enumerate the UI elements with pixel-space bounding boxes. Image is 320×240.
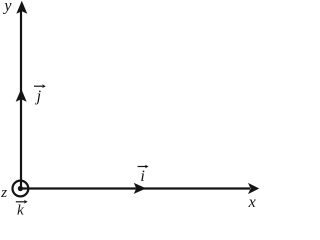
arrowhead y-axis tip <box>16 1 27 14</box>
arrowhead unit vector i <box>134 183 146 194</box>
svg-text:y: y <box>2 0 12 14</box>
arrowhead unit vector j <box>16 89 27 102</box>
label vector j <box>34 84 46 105</box>
svg-text:j: j <box>35 88 42 105</box>
svg-text:i: i <box>140 168 144 185</box>
label x <box>248 194 256 211</box>
origin dot <box>18 186 23 191</box>
svg-text:k: k <box>17 203 24 217</box>
svg-text:x: x <box>248 194 256 211</box>
origin circle (z-axis out of page) <box>13 181 29 197</box>
arrowhead x-axis tip <box>248 183 259 194</box>
svg-text:z: z <box>0 185 7 201</box>
label vector i <box>138 165 149 185</box>
label vector k <box>16 200 28 219</box>
wire y-axis <box>20 6 22 189</box>
wire x-axis <box>20 187 250 189</box>
label z <box>0 185 7 201</box>
label y <box>2 0 12 14</box>
